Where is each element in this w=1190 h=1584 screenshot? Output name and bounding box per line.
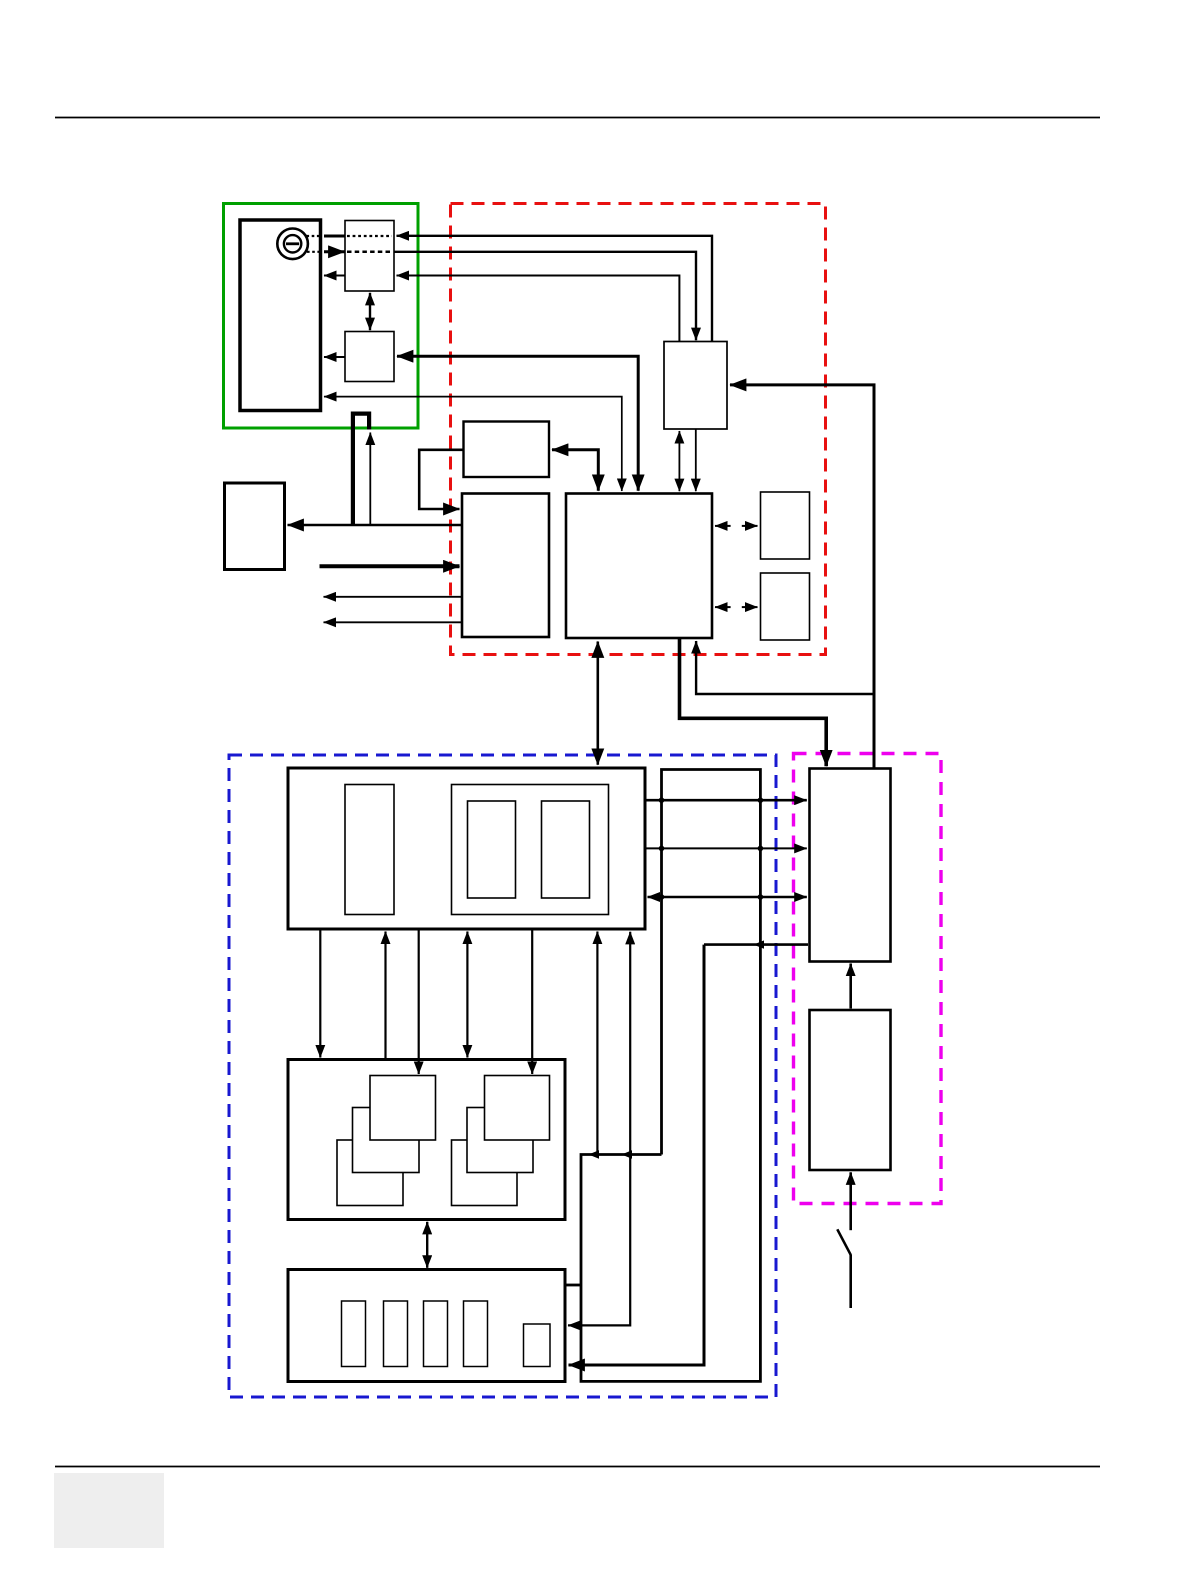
coprocessor sub block B — [542, 801, 590, 898]
top rule — [55, 117, 1100, 119]
interface buffer box — [462, 494, 549, 638]
config register box A — [761, 492, 810, 559]
LED indicator outer circle — [277, 229, 308, 260]
slot connector 1 — [342, 1301, 366, 1367]
junction line1 bus right — [758, 797, 764, 803]
gate array box — [566, 494, 712, 639]
speaker box — [225, 483, 285, 570]
cpu inner block — [345, 785, 394, 915]
power supply rectifier box — [810, 1010, 891, 1170]
wire ram expansion double arrow — [426, 1222, 428, 1268]
ram bank1 middle chip — [353, 1108, 420, 1173]
slot connector 4 — [464, 1301, 488, 1367]
wire interface gate array double arrow — [678, 431, 680, 491]
footer gray placeholder — [54, 1473, 164, 1548]
dashed bidir arrows register A — [715, 525, 731, 527]
wire dotted LED to kbd edge upper — [307, 235, 321, 237]
system bus loop — [581, 770, 760, 1382]
ram bank1 back chip — [337, 1140, 403, 1206]
wire power branch up into gate array — [696, 641, 874, 694]
wire gate array cpu board double arrow — [596, 642, 599, 765]
wire rom to gate array elbow — [552, 450, 598, 491]
keyboard encoder box U2 — [345, 332, 394, 382]
wire power good to interface thick — [730, 385, 874, 768]
junction line3 bus right — [758, 894, 764, 900]
wire arrow controller into keyboard — [324, 275, 345, 277]
wire rectifier to regulator arrow — [849, 964, 852, 1009]
blue dashed memory enclosure border — [229, 755, 776, 1397]
magenta dashed power enclosure border — [794, 754, 942, 1204]
junction line1 bus left — [659, 797, 665, 803]
dashed bidir arrows register B — [715, 606, 731, 608]
slot connector 2 — [384, 1301, 408, 1367]
junction line2 bus left — [659, 846, 665, 852]
slot connector 3 — [424, 1301, 448, 1367]
wire arrow up into connector — [369, 433, 371, 526]
wire controller encoder double arrow — [369, 293, 371, 330]
wire power sense down into slots thick — [569, 945, 705, 1365]
wire cpu to psu line1 — [645, 799, 807, 802]
coprocessor sub block A — [468, 801, 516, 898]
wire encoder to gate array thick — [397, 356, 638, 491]
keyboard unit box — [240, 220, 321, 411]
wire rom to buffer U path — [419, 450, 463, 509]
config register box B — [761, 573, 810, 640]
green keyboard enclosure border — [224, 204, 419, 429]
ram bank2 back chip — [452, 1140, 518, 1206]
LED indicator bar — [286, 242, 299, 245]
wire bus up into cpu board A — [596, 932, 598, 1155]
footer rule — [55, 1466, 1100, 1468]
slot connector 5 — [524, 1324, 551, 1367]
keyboard interface box — [664, 342, 727, 430]
wire arrow into speaker — [288, 524, 463, 527]
bus junction arrow mark B — [622, 1150, 633, 1158]
wire ram to cpu data — [384, 932, 386, 1060]
memory board box — [288, 1060, 565, 1220]
cpu board box — [288, 768, 645, 929]
coprocessor outer block — [452, 785, 609, 915]
wire gate array to regulator thick elbow — [680, 639, 827, 766]
wire cpu ram double arrow — [466, 932, 468, 1058]
wire T1 interface to controller — [397, 236, 713, 342]
wire thick input arrow into buffer — [320, 564, 460, 568]
power switch blade — [837, 1229, 850, 1255]
ram bank2 middle chip — [467, 1108, 533, 1173]
power supply regulator box — [810, 769, 891, 962]
wire power sense horizontal — [704, 943, 808, 946]
rom box — [464, 422, 550, 478]
wire buffer output upper — [324, 596, 463, 598]
red dashed mainboard enclosure border — [451, 204, 826, 655]
ram bank2 front chip — [485, 1076, 550, 1141]
wire dashed inside controller upper — [347, 235, 392, 237]
junction line3 bus left — [659, 894, 665, 900]
bus junction arrow mark A — [589, 1150, 600, 1158]
wire T3 interface to controller — [397, 276, 680, 342]
wire kbd edge to controller upper — [324, 235, 345, 238]
wire buffer output lower — [324, 621, 463, 623]
expansion slot box — [288, 1270, 565, 1382]
power sense arrow mark — [754, 940, 765, 948]
wire dashed inside controller lower — [347, 251, 392, 254]
wire cpu into ram bank1 — [418, 929, 420, 1074]
wire dotted LED to kbd edge lower — [307, 251, 320, 253]
wire keyboard to gate array thin — [324, 397, 622, 491]
power switch lower lead — [849, 1255, 852, 1309]
ram bank1 front chip — [370, 1076, 436, 1141]
keyboard cable connector hook — [353, 414, 369, 525]
wire interface to gate array down — [695, 429, 697, 491]
wire switch to rectifier arrow — [849, 1172, 852, 1230]
wire cpu to psu line2 — [645, 847, 807, 849]
LED indicator inner circle — [284, 235, 301, 252]
wire T2 controller to interface — [394, 252, 696, 340]
wire arrow kbd edge into controller — [324, 250, 345, 253]
keyboard controller box U1 — [345, 221, 394, 292]
junction line2 bus right — [758, 846, 764, 852]
wire cpu to ram address — [319, 929, 321, 1058]
wire bus up into cpu board B and down to slots — [568, 932, 630, 1326]
wire cpu psu double arrow line3 — [648, 896, 807, 898]
bus stub into expansion box — [567, 1284, 582, 1287]
wire arrow encoder into keyboard — [324, 356, 345, 358]
wire cpu into ram bank2 — [531, 929, 533, 1074]
